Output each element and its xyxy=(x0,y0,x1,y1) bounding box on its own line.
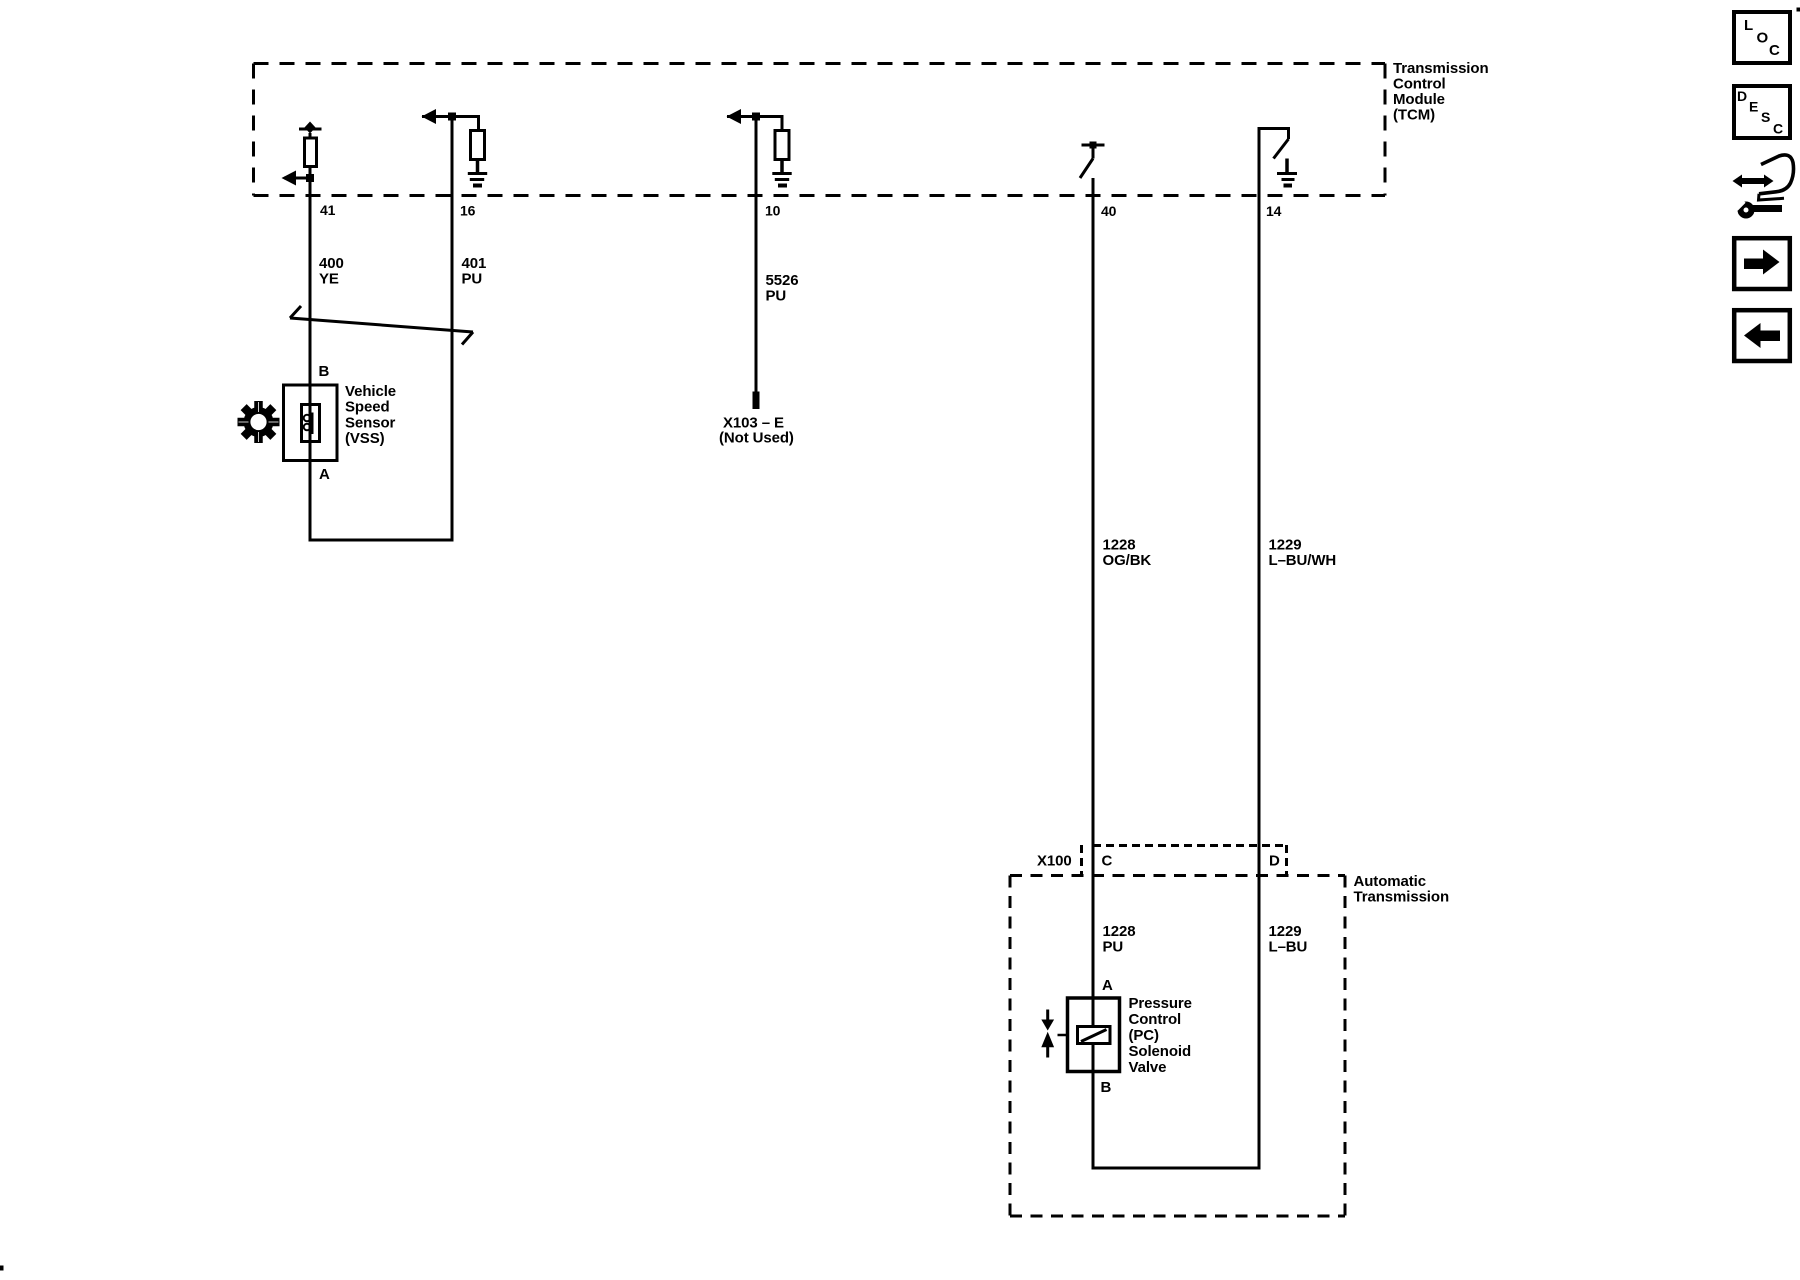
wire label 1228 OG/BK xyxy=(1103,537,1152,570)
svg-text:A: A xyxy=(1102,977,1113,994)
svg-text:PU: PU xyxy=(1103,939,1124,956)
valve symbol xyxy=(1041,1010,1054,1058)
svg-text:Transmission: Transmission xyxy=(1354,889,1450,906)
svg-text:41: 41 xyxy=(320,202,336,218)
arrow to left at pin 41 xyxy=(282,171,315,186)
svg-text:A: A xyxy=(319,466,330,483)
svg-text:(PC): (PC) xyxy=(1129,1027,1160,1044)
svg-text:C: C xyxy=(1773,121,1783,137)
VSS label xyxy=(345,383,396,447)
svg-text:L–BU: L–BU xyxy=(1269,939,1308,956)
svg-text:(Not Used): (Not Used) xyxy=(719,429,794,446)
twisted pair crossing arrow over VSS wires xyxy=(290,306,473,345)
DESC nav box xyxy=(1734,86,1790,138)
VSS component box xyxy=(284,385,338,461)
forward arrow nav box xyxy=(1734,238,1790,289)
VSS inner pickup element xyxy=(302,405,320,442)
wire label 1229 L-BU xyxy=(1269,923,1308,956)
svg-text:B: B xyxy=(319,363,330,380)
wire label 400 YE xyxy=(319,255,344,288)
svg-text:1228: 1228 xyxy=(1103,923,1136,940)
svg-text:16: 16 xyxy=(460,203,476,219)
svg-text:1229: 1229 xyxy=(1269,537,1302,554)
wire label 1228 PU xyxy=(1103,923,1136,956)
page edge speck bottom left xyxy=(0,1266,4,1271)
Automatic Transmission label xyxy=(1354,873,1450,906)
svg-text:1229: 1229 xyxy=(1269,923,1302,940)
svg-text:PU: PU xyxy=(766,287,787,304)
TCM label xyxy=(1393,60,1489,124)
TCM module dashed box xyxy=(254,64,1386,196)
connector X100 dashed box xyxy=(1082,845,1287,874)
svg-text:O: O xyxy=(1757,30,1769,47)
arrow to left at pin 16 xyxy=(422,109,479,130)
svg-text:Speed: Speed xyxy=(345,399,390,416)
PC solenoid label xyxy=(1129,995,1192,1076)
wire pin 10 down xyxy=(755,117,758,393)
svg-text:400: 400 xyxy=(319,255,344,272)
svg-text:L: L xyxy=(1744,17,1753,34)
node label X103-E xyxy=(719,415,794,447)
Automatic Transmission dashed box xyxy=(1010,876,1345,1217)
pin 40 driver switch symbol xyxy=(1080,142,1105,179)
LOC nav box xyxy=(1734,12,1790,63)
svg-text:Valve: Valve xyxy=(1129,1059,1167,1076)
svg-text:X100: X100 xyxy=(1037,853,1072,870)
svg-text:401: 401 xyxy=(462,255,487,272)
svg-text:14: 14 xyxy=(1266,203,1282,219)
svg-text:B: B xyxy=(1101,1079,1112,1096)
svg-text:40: 40 xyxy=(1101,203,1117,219)
svg-text:(VSS): (VSS) xyxy=(345,430,385,447)
svg-text:YE: YE xyxy=(319,271,339,288)
svg-text:OG/BK: OG/BK xyxy=(1103,552,1152,569)
connector terminal X103-E xyxy=(753,392,760,410)
wire pin 41 to VSS B and down, bottom U to pin 16 wire xyxy=(310,117,452,541)
wire label 1229 L-BU/WH xyxy=(1269,537,1337,570)
wire label 401 PU xyxy=(462,255,487,288)
svg-text:L–BU/WH: L–BU/WH xyxy=(1269,552,1337,569)
gear icon at VSS xyxy=(229,392,288,451)
arrow to left at pin 10 xyxy=(727,109,783,130)
svg-text:E: E xyxy=(1749,99,1758,115)
resistor R-internal pin 41 xyxy=(305,138,317,167)
svg-text:Solenoid: Solenoid xyxy=(1129,1043,1192,1060)
resistor R-internal pin 16 xyxy=(471,131,485,160)
svg-text:(TCM): (TCM) xyxy=(1393,107,1435,124)
svg-text:D: D xyxy=(1737,88,1747,104)
PC solenoid left stub xyxy=(1058,1034,1067,1037)
svg-text:Sensor: Sensor xyxy=(345,414,396,431)
pin 41 internal source symbol xyxy=(299,122,322,137)
svg-text:Control: Control xyxy=(1393,76,1446,93)
svg-text:C: C xyxy=(1769,42,1780,59)
PC solenoid box xyxy=(1068,998,1120,1072)
back arrow nav box xyxy=(1734,310,1790,361)
resistor R-internal pin 10 xyxy=(775,131,789,160)
ground symbol pin 10 xyxy=(772,160,791,186)
svg-text:D: D xyxy=(1269,853,1280,870)
svg-text:Automatic: Automatic xyxy=(1354,873,1426,890)
svg-text:Module: Module xyxy=(1393,91,1445,108)
ground symbol pin 14 xyxy=(1277,159,1297,186)
svg-text:PU: PU xyxy=(462,271,483,288)
wire label 5526 PU xyxy=(766,272,799,304)
svg-text:S: S xyxy=(1761,109,1770,125)
svg-text:C: C xyxy=(1102,853,1113,870)
wire pin 40 down to PC solenoid and bottom U to pin 14 xyxy=(1093,129,1289,1169)
ground symbol pin 16 xyxy=(468,160,487,186)
svg-text:Control: Control xyxy=(1129,1011,1182,1028)
page edge speck top right xyxy=(1797,8,1800,12)
pin 14 driver switch symbol xyxy=(1274,139,1289,159)
svg-text:Pressure: Pressure xyxy=(1129,995,1192,1012)
diagnostics icon (arrows and wrench) xyxy=(1731,155,1793,216)
svg-text:Transmission: Transmission xyxy=(1393,60,1489,77)
svg-text:Vehicle: Vehicle xyxy=(345,383,396,400)
svg-text:1228: 1228 xyxy=(1103,537,1136,554)
svg-text:10: 10 xyxy=(765,203,781,219)
PC solenoid coil element xyxy=(1078,1027,1111,1044)
